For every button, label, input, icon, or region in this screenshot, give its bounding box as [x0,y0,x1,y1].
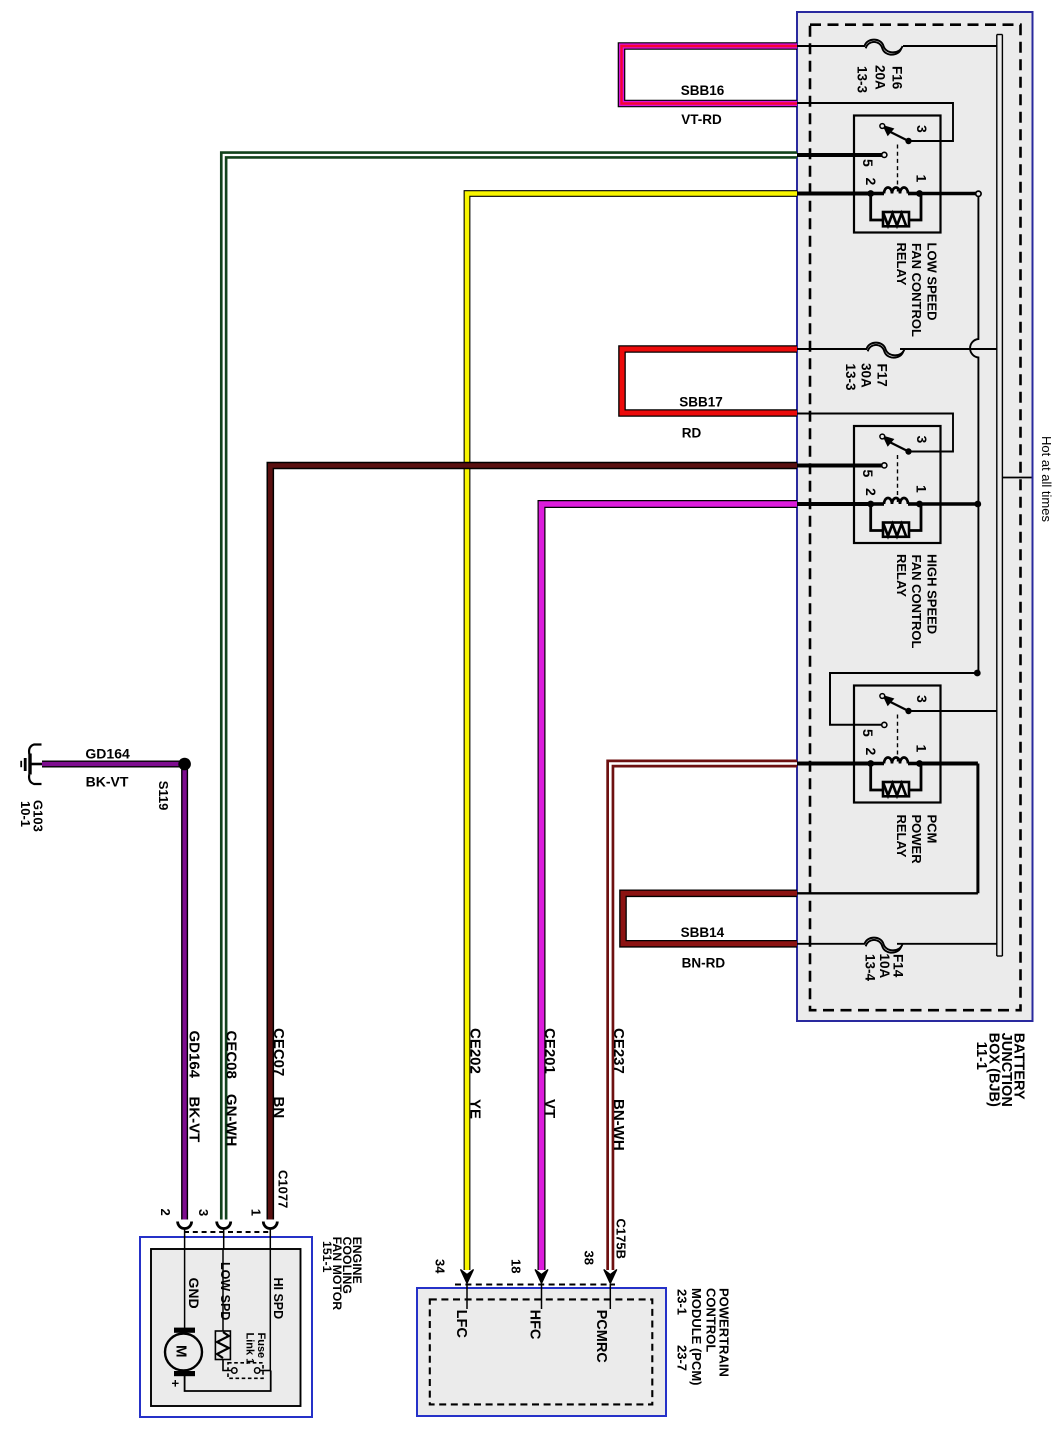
svg-text:20A: 20A [873,65,888,90]
svg-text:+: + [168,1380,183,1388]
label CE202 YE wire [467,1028,484,1119]
svg-text:YE: YE [467,1099,484,1119]
label HIGH SPEED FAN CONTROL RELAY [894,554,940,648]
svg-text:HIGH SPEED: HIGH SPEED [925,554,940,634]
svg-text:PCMRC: PCMRC [593,1310,609,1364]
wire low relay pin1 to node [921,192,976,195]
svg-text:LOW SPD: LOW SPD [218,1262,232,1320]
wire CE201 VT violet [542,504,798,1270]
fuse link connector [223,1360,231,1371]
label CE237 BN-WH wire [610,1028,627,1151]
node low pin1 circle [976,191,981,196]
svg-text:38: 38 [582,1251,597,1265]
wire PCM relay pin3 to bus [909,710,997,712]
svg-text:BN: BN [270,1097,287,1119]
label F16 20A 13-3 [855,65,905,94]
svg-text:1: 1 [914,175,930,183]
fuse F16 symbol [865,40,903,53]
label CE201 VT wire [541,1028,558,1118]
svg-text:GD164: GD164 [85,746,130,762]
label CEC07 BN wire [270,1028,287,1118]
relay coil [871,762,884,766]
svg-text:23-1: 23-1 [675,1289,690,1315]
power bus bar [997,35,1003,957]
svg-text:1: 1 [914,745,930,753]
label ENGINE COOLING FAN MOTOR 151-1 [320,1237,364,1311]
svg-text:F17: F17 [875,364,890,387]
svg-text:GD164: GD164 [186,1031,203,1079]
svg-text:CEC08: CEC08 [223,1031,240,1079]
ground symbol G103 [20,745,42,785]
svg-text:5: 5 [860,159,876,167]
svg-text:MODULE (PCM): MODULE (PCM) [689,1288,704,1386]
wire high relay pin1 to node [920,502,978,505]
PCM dashed border [430,1299,653,1404]
svg-text:2: 2 [158,1209,173,1216]
svg-text:SBB17: SBB17 [679,395,723,410]
wire CEC07 BN brown [270,466,797,1220]
svg-text:VT: VT [541,1099,558,1118]
ground wire GD164 BK-VT horizontal [42,761,185,768]
svg-text:CE237: CE237 [610,1028,627,1074]
label PCM POWER RELAY [894,815,940,865]
relay parallel resistor [871,764,883,791]
PCM connector dashed line [455,1284,615,1286]
svg-text:LFC: LFC [453,1310,469,1339]
svg-text:GN-WH: GN-WH [223,1094,240,1147]
svg-text:F16: F16 [890,66,905,90]
label G103 10-1 [18,800,46,832]
svg-text:RELAY: RELAY [894,554,909,597]
label Fuse Link 1 [244,1333,268,1365]
svg-text:FAN CONTROL: FAN CONTROL [909,243,924,337]
fuse F17 30A wire [797,348,867,350]
fan motor LOW SPD lead [222,1249,224,1331]
wire pin 3 feed [797,103,953,141]
svg-text:POWER: POWER [909,815,924,865]
svg-text:CONTROL: CONTROL [704,1288,719,1352]
svg-text:BN-WH: BN-WH [610,1099,627,1151]
label F17 30A 13-3 [843,363,890,391]
svg-text:2: 2 [863,748,879,756]
node PCM feed junction dot [974,670,981,677]
label CEC08 GN-WH wire [223,1031,240,1147]
relay parallel resistor [871,504,883,531]
svg-text:5: 5 [860,729,876,737]
svg-text:BK-VT: BK-VT [186,1097,203,1143]
switch arm pin 3 [905,138,911,144]
battery junction box (BJB) outline [797,12,1033,1021]
svg-text:3: 3 [914,436,930,444]
splice S119 dot [178,758,191,771]
fan motor inner box [151,1249,301,1406]
PCM outer blue box [417,1288,666,1416]
svg-text:Hot at all times: Hot at all times [1039,436,1054,522]
svg-text:RELAY: RELAY [894,243,909,286]
wire node to PCM relay pin5 [830,673,977,725]
fuse F14 symbol [865,938,903,951]
svg-text:13-3: 13-3 [855,66,870,94]
BJB dashed border [810,25,1021,1011]
relay coil [871,502,884,506]
fan motor outer blue box [140,1237,312,1417]
relay actuator dashed line [897,145,899,192]
relay parallel resistor [871,194,883,221]
connector arrows pins 34 18 38 [461,1270,474,1284]
relay actuator dashed line [897,455,899,502]
svg-text:C175B: C175B [614,1219,629,1259]
svg-text:S119: S119 [156,781,171,811]
motor return wire [185,1371,271,1392]
svg-text:10A: 10A [877,954,892,979]
svg-text:FAN CONTROL: FAN CONTROL [909,555,924,649]
wire GD164 BK-VT vertical to fan [181,764,188,1220]
pin labels 3 5 2 1 [860,436,930,497]
svg-text:13-3: 13-3 [843,364,858,392]
svg-text:23-7: 23-7 [675,1345,690,1371]
svg-text:2: 2 [863,488,879,496]
wire PCM relay pin1 to SBB14 [920,762,978,766]
pin 5 contact [882,463,887,468]
wire SBB16 VT-RD loop [622,46,798,104]
connector C1077 dashed line [184,1231,271,1233]
BATTERY JUNCTION BOX (BJB) 11-1 label [973,1033,1026,1107]
svg-text:5: 5 [860,470,876,478]
wire pin5 high relay (from CEC07) [797,464,882,468]
svg-text:3: 3 [914,695,930,703]
fuse F14 10A wire [797,943,865,945]
switch arm pin 3 [905,448,911,454]
svg-text:RELAY: RELAY [894,815,909,858]
wire SBB14 BN-RD loop [623,893,797,944]
svg-text:10-1: 10-1 [18,801,33,827]
fan motor GND lead [184,1249,186,1328]
svg-text:GND: GND [186,1278,202,1309]
svg-text:151-1: 151-1 [320,1241,334,1273]
connector cups pins 2 3 1 [178,1222,192,1229]
wire coil PCM relay (from CE237) [797,762,871,766]
wire coil high relay (from CE201) [797,502,871,506]
label GD164 BK-VT wire [186,1031,203,1143]
fan motor M symbol [165,1328,202,1377]
wire pin 3 feed [797,414,953,452]
svg-text:BN-RD: BN-RD [682,956,726,971]
svg-text:Link 1: Link 1 [244,1333,256,1365]
svg-text:CE202: CE202 [467,1028,484,1074]
label F14 10A 13-4 [863,954,906,982]
label LOW SPEED FAN CONTROL RELAY [894,243,940,337]
svg-text:PCM: PCM [925,815,940,844]
svg-text:CE201: CE201 [541,1028,558,1074]
fan motor HI SPD lead [269,1249,271,1371]
node high pin1 junction dot [974,501,981,508]
svg-text:Fuse: Fuse [255,1333,267,1359]
Hot at all times label [1002,436,1053,522]
switch arm pin 3 [905,708,911,714]
wire pin5 low relay (from CEC08) [797,153,882,157]
svg-text:SBB14: SBB14 [681,925,725,940]
wire CE237 BN-WH [610,764,797,1271]
svg-text:2: 2 [863,178,879,186]
pin 5 contact [882,152,887,157]
pin labels 3 5 2 1 [860,125,930,186]
svg-text:30A: 30A [859,363,874,388]
svg-text:13-4: 13-4 [863,954,878,982]
wire SBB17 RD loop [622,349,797,413]
relay coil [871,192,884,196]
pin labels 3 5 2 1 [860,695,930,756]
svg-text:VT-RD: VT-RD [681,112,722,127]
fuse link resistor [215,1331,230,1360]
svg-text:11-1: 11-1 [973,1042,989,1070]
svg-text:3: 3 [914,125,930,133]
label POWERTRAIN CONTROL MODULE (PCM) 23-1 23-7 [675,1288,732,1386]
svg-text:RD: RD [682,426,702,441]
svg-text:SBB16: SBB16 [681,83,725,98]
svg-text:HI SPD: HI SPD [271,1278,285,1320]
svg-text:HFC: HFC [527,1310,543,1340]
svg-text:34: 34 [433,1259,448,1274]
svg-text:C1077: C1077 [276,1170,291,1208]
wire CEC08 GN-WH green [224,155,797,1220]
wire coil low relay (from CE202) [797,192,871,196]
svg-text:M: M [173,1345,190,1358]
relay box [854,426,941,543]
svg-text:LOW SPEED: LOW SPEED [925,243,940,321]
svg-text:BK-VT: BK-VT [86,774,129,790]
relay actuator dashed line [897,715,899,762]
svg-text:3: 3 [196,1209,211,1216]
relay box [854,686,941,803]
fuse F17 symbol [867,343,905,356]
svg-text:1: 1 [914,485,930,493]
pin 5 contact [882,722,887,727]
svg-text:CEC07: CEC07 [270,1028,287,1076]
wire CE202 YE yellow [467,194,797,1271]
svg-text:1: 1 [249,1209,264,1216]
relay box [854,116,941,233]
svg-text:18: 18 [509,1259,524,1273]
wire vertical node line with hop over F17 [970,197,978,674]
fuse F16 20A wire [797,45,865,47]
